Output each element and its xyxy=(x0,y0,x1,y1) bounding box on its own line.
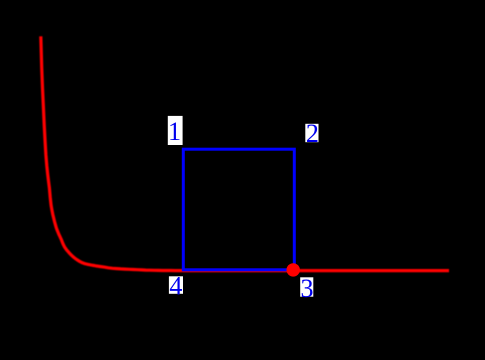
svg-text:4: 4 xyxy=(169,272,182,301)
svg-text:3: 3 xyxy=(301,274,314,303)
svg-text:1: 1 xyxy=(168,117,181,146)
svg-text:2: 2 xyxy=(306,119,319,148)
